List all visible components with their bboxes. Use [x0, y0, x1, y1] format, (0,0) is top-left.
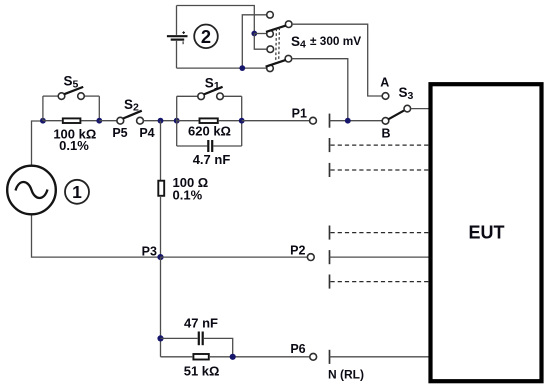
switch S5 arm — [64, 87, 83, 94]
contact A — [382, 93, 389, 100]
node: S1 block left junction — [174, 118, 180, 124]
wire: P3 to P2 — [161, 256, 308, 258]
capacitor 4.7 nF — [207, 140, 209, 152]
switch S4 arm 1 — [266, 25, 286, 32]
circled label 1 — [65, 180, 89, 204]
battery plus sign — [182, 31, 185, 34]
wire: P2 bar to EUT — [330, 256, 431, 258]
wire: P3 down to RC block — [160, 257, 162, 357]
wire: C1 to contact A — [292, 24, 382, 96]
node: battery plus junction — [251, 31, 257, 37]
svg-text:2: 2 — [201, 26, 211, 47]
svg-text:P5: P5 — [112, 126, 127, 140]
contact P1 — [310, 117, 317, 124]
connector bar dashed line 3 — [329, 226, 331, 240]
wire P4 to S1 block — [143, 120, 176, 122]
resistor 620 kOhm — [177, 120, 199, 122]
switch S4 pole C2 — [285, 55, 292, 62]
switch S4 pole C1 — [285, 21, 292, 28]
node: 47nF branch junction — [157, 335, 163, 341]
wire: S1 block right vertical — [241, 96, 243, 146]
node P3 — [157, 254, 163, 260]
connector bar P6 line — [329, 350, 331, 364]
switch S4 throw T2 — [267, 31, 274, 38]
switch S3 pole — [404, 105, 411, 112]
svg-text:P4: P4 — [139, 126, 154, 140]
wire: capacitor branch left — [177, 145, 208, 147]
capacitor 47 nF — [198, 332, 200, 346]
svg-text:51 kΩ: 51 kΩ — [184, 364, 220, 379]
wire: source top to main line — [32, 121, 43, 166]
battery box left edge lower — [176, 41, 178, 68]
battery box top edge — [177, 6, 255, 34]
switch S1 arm — [204, 87, 223, 95]
circled label 2 — [194, 25, 218, 49]
node: S5 block right junction — [96, 118, 102, 124]
svg-text:P6: P6 — [290, 342, 305, 356]
resistor 51 kOhm — [161, 356, 193, 358]
wire: P6 bar to EUT — [330, 356, 431, 358]
wire: plus to throw T2 — [254, 33, 266, 35]
svg-text:P1: P1 — [292, 106, 307, 120]
wire to P1 — [242, 120, 310, 122]
dashed line 3 to EUT — [331, 232, 431, 234]
svg-text:4.7 nF: 4.7 nF — [193, 152, 231, 167]
wire: S1 block left vertical — [176, 96, 178, 146]
AC source circle — [7, 166, 56, 215]
wire: 47nF branch right — [204, 338, 233, 356]
switch S3 arm — [388, 110, 404, 119]
contact P6 — [310, 353, 317, 360]
wire: S3 pole to EUT — [411, 108, 430, 110]
svg-text:A: A — [380, 76, 389, 90]
svg-text:0.1%: 0.1% — [173, 187, 203, 202]
connector bar dashed line 4 — [329, 275, 331, 289]
sine wave inside source — [16, 182, 48, 198]
connector bar dashed line 2 — [329, 163, 331, 177]
battery box left edge upper — [176, 6, 178, 35]
wire: C2 down to P1 line — [292, 59, 348, 121]
switch S2 arm — [123, 111, 142, 119]
wire: plus down to throw T3 — [254, 34, 267, 50]
svg-text:P2: P2 — [290, 243, 305, 257]
dashed line 1 to EUT — [331, 144, 431, 146]
wire: S5 right vertical — [98, 96, 100, 121]
battery box bottom edge — [177, 67, 267, 69]
node: RC block right junction — [230, 354, 236, 360]
wire: S1 top branch — [177, 95, 198, 97]
resistor 100 Ohm — [158, 181, 164, 196]
battery B1 short plate — [171, 38, 185, 40]
svg-text:N (RL): N (RL) — [328, 367, 364, 381]
switch S2 contact P5 — [117, 117, 124, 124]
svg-text:620 kΩ: 620 kΩ — [188, 124, 231, 139]
dashed line 2 to EUT — [331, 169, 431, 171]
switch S4 throw T3 — [267, 46, 274, 53]
wire: 47nF branch left — [161, 337, 198, 339]
svg-text:EUT: EUT — [469, 222, 505, 242]
wire: 100 Ohm down to P3 — [160, 196, 162, 257]
wire: source bottom to P3 line — [32, 214, 161, 257]
svg-text:P3: P3 — [142, 244, 157, 258]
battery B1 long plate — [167, 35, 188, 37]
wire: vertical branch down to 100 Ohm resistor — [160, 121, 162, 181]
connector bar dashed line 1 — [329, 138, 331, 152]
node: 100 Ohm branch junction — [158, 118, 164, 124]
switch S4 gang link dashed — [275, 29, 278, 64]
wire: bar to B contact — [330, 120, 383, 122]
contact P2 — [307, 254, 314, 261]
battery minus tick — [182, 41, 184, 44]
node: S1 block right junction — [239, 118, 245, 124]
switch S4 throw T1 — [267, 12, 274, 19]
wire: S5 left vertical — [42, 96, 44, 121]
EUT box — [431, 84, 542, 381]
wire: minus riser to throw T1 — [242, 15, 266, 68]
svg-text:B: B — [381, 127, 390, 141]
wire: capacitor branch right — [213, 145, 242, 147]
resistor 100 kOhm — [43, 120, 62, 122]
svg-text:± 300 mV: ± 300 mV — [310, 34, 361, 48]
switch S4 arm 2 — [266, 60, 286, 67]
svg-text:1: 1 — [72, 182, 82, 202]
wire: S5 top branch — [43, 95, 58, 97]
connector bar P2 line — [329, 250, 331, 264]
switch S4 throw T4 — [267, 65, 274, 72]
switch S5 contacts — [58, 93, 65, 100]
switch S2 contact P4 — [137, 117, 144, 124]
node: S5 block left junction — [40, 118, 46, 124]
connector bar P1 line — [329, 114, 331, 128]
svg-text:47 nF: 47 nF — [184, 316, 218, 331]
wire to P5 — [99, 120, 117, 122]
node: S4 output junction on P1 line — [345, 118, 351, 124]
switch S3 contact B — [382, 118, 389, 125]
node: battery minus junction — [239, 65, 245, 71]
dashed line 4 to EUT — [331, 281, 431, 283]
switch S1 contacts — [198, 93, 205, 100]
svg-text:0.1%: 0.1% — [59, 138, 89, 153]
